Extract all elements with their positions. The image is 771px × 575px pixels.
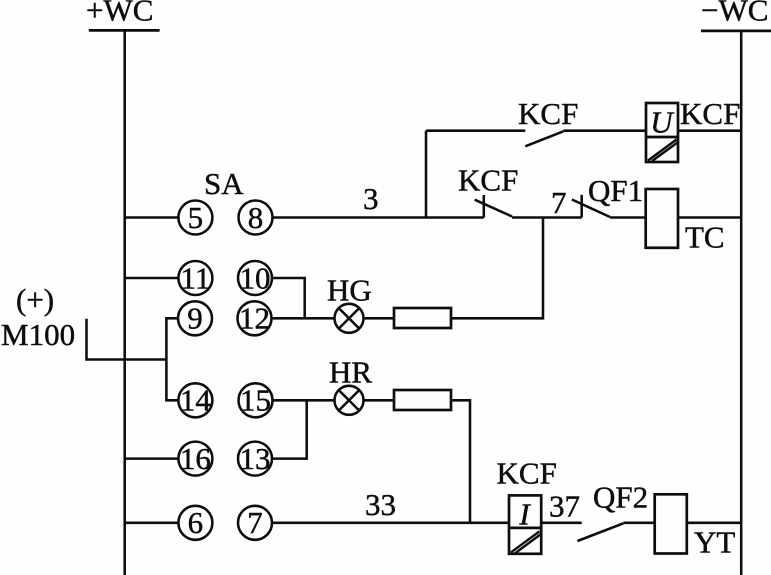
wire resistor R2 down to node 33 [451, 400, 470, 523]
svg-text:TC: TC [685, 220, 725, 255]
wire KCF seal-in branch horizontal [426, 129, 525, 132]
svg-text:KCF: KCF [680, 96, 740, 131]
svg-text:15: 15 [240, 383, 271, 418]
SA terminal 15 [239, 383, 273, 418]
svg-text:(+): (+) [16, 282, 54, 317]
coil YT (closing coil) [655, 494, 687, 553]
svg-text:8: 8 [248, 200, 264, 235]
resistor R2 (HR series resistor) [394, 390, 451, 410]
wire SA terminal 10 jumper down to HG row [272, 278, 305, 318]
SA terminal 6 [178, 505, 212, 540]
negative bus bar -WC [701, 29, 771, 32]
svg-text:HG: HG [327, 273, 372, 308]
SA terminal 14 [178, 383, 212, 418]
SA terminal 16 [178, 441, 212, 476]
svg-text:QF2: QF2 [593, 480, 648, 515]
wire bus tap to SA terminal 11 [125, 277, 179, 280]
svg-text:11: 11 [180, 260, 210, 295]
SA terminal 12 [238, 301, 272, 336]
wire QF2 contact to YT coil [623, 522, 654, 525]
contact KCF normally-closed [475, 195, 512, 218]
wire lamp HG to resistor [364, 317, 395, 320]
wire SA terminal 7 to KCF current coil (node 33 run) [272, 522, 509, 525]
wire right bus vertical (-WC rail) [740, 31, 743, 575]
svg-text:33: 33 [365, 487, 396, 522]
contact KCF normally-open (seal-in) [525, 131, 563, 146]
wire KCF NC contact to node 7 [512, 216, 582, 219]
svg-text:KCF: KCF [458, 163, 518, 198]
wire left bus vertical (+WC rail) [123, 30, 126, 575]
wire bus tap to SA terminal 16 [125, 457, 179, 460]
wire QF1 contact to TC coil [610, 216, 646, 219]
contact QF1 auxiliary normally-closed [572, 195, 610, 218]
wire riser to KCF seal-in branch [425, 131, 428, 218]
SA terminal 13 [238, 441, 272, 476]
wire bus tap to SA terminal 6 [125, 522, 179, 525]
svg-text:−WC: −WC [701, 0, 768, 28]
svg-text:9: 9 [187, 301, 203, 336]
svg-text:KCF: KCF [518, 96, 578, 131]
svg-text:KCF: KCF [497, 456, 557, 491]
resistor R1 (HG series resistor) [394, 308, 451, 328]
svg-text:YT: YT [694, 525, 735, 560]
svg-text:16: 16 [180, 441, 211, 476]
svg-text:HR: HR [329, 355, 372, 390]
svg-text:14: 14 [180, 383, 212, 418]
svg-text:QF1: QF1 [588, 173, 643, 208]
wire KCF voltage coil to right bus [678, 129, 741, 132]
SA terminal 8 [239, 200, 273, 235]
wire M100 terminal lead [87, 319, 167, 360]
positive bus bar +WC [89, 29, 160, 32]
svg-text:7: 7 [551, 185, 567, 220]
svg-text:37: 37 [549, 489, 580, 524]
SA terminal 10 [238, 260, 272, 295]
svg-text:12: 12 [239, 301, 270, 336]
wire SA terminal 12 to lamp HG [272, 317, 335, 320]
coil TC (trip coil) [646, 189, 678, 248]
svg-text:+WC: +WC [86, 0, 153, 28]
svg-text:10: 10 [240, 260, 271, 295]
lamp HR (red indicator) [335, 386, 364, 415]
wire SA terminal 15 to lamp HR [273, 399, 335, 402]
wire bus tap to SA terminal 5 [125, 216, 179, 219]
wire bracket joining SA terminals 9 and 14 [166, 318, 178, 400]
svg-text:7: 7 [247, 505, 263, 540]
wire lamp HR to resistor [364, 399, 395, 402]
wire TC coil to right bus [678, 216, 741, 219]
SA terminal 9 [178, 301, 212, 336]
svg-text:5: 5 [188, 200, 204, 235]
SA terminal 7 [238, 505, 272, 540]
svg-text:I: I [518, 497, 531, 532]
wire KCF current coil to QF2 contact [541, 522, 582, 525]
svg-text:13: 13 [240, 441, 271, 476]
svg-text:U: U [650, 105, 675, 140]
svg-text:SA: SA [204, 166, 244, 201]
relay coil KCF current element I [509, 495, 541, 553]
SA terminal 5 [178, 200, 212, 235]
wire SA terminal 13 jumper up to HR row [272, 400, 307, 458]
lamp HG (green indicator) [335, 304, 364, 333]
svg-text:3: 3 [363, 181, 379, 216]
svg-text:6: 6 [188, 505, 204, 540]
svg-text:M100: M100 [1, 317, 75, 352]
wire KCF NO contact to KCF voltage coil [563, 129, 646, 132]
contact QF2 auxiliary normally-open [578, 523, 624, 541]
wire SA terminal 8 to node 3 run [273, 216, 484, 219]
SA terminal 11 [178, 260, 212, 295]
relay coil KCF voltage element U [646, 103, 678, 162]
wire resistor R1 to node 7 riser [451, 218, 543, 319]
wire YT coil to right bus [687, 522, 741, 525]
